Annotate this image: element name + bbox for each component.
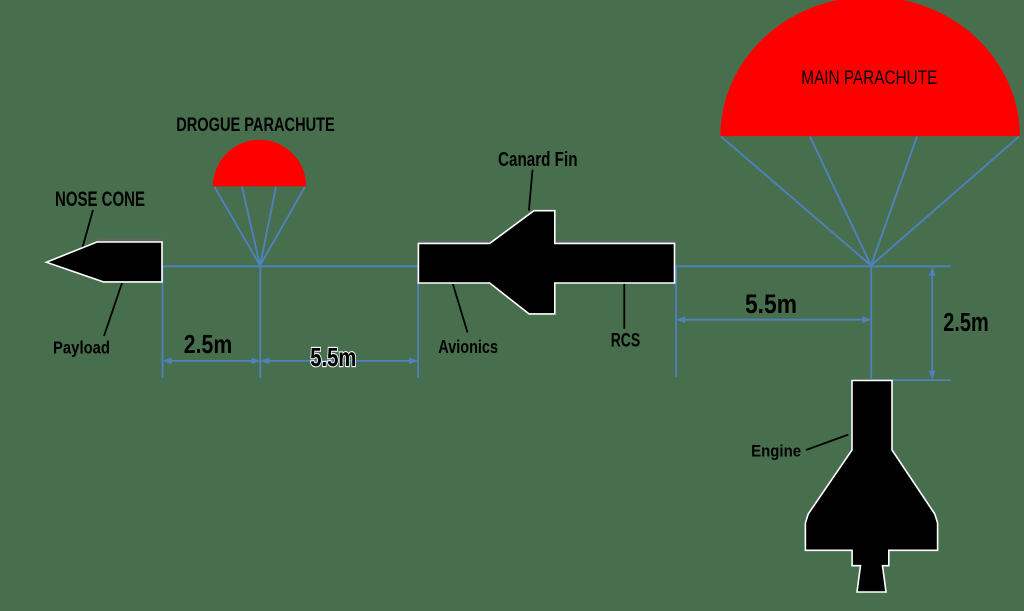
- svg-text:RCS: RCS: [611, 331, 641, 352]
- svg-text:DROGUE PARACHUTE: DROGUE PARACHUTE: [176, 115, 335, 136]
- svg-text:NOSE CONE: NOSE CONE: [55, 188, 145, 211]
- svg-text:5.5m: 5.5m: [745, 289, 797, 319]
- svg-text:Avionics: Avionics: [438, 337, 498, 357]
- svg-text:2.5m: 2.5m: [184, 329, 232, 359]
- svg-text:MAIN PARACHUTE: MAIN PARACHUTE: [801, 68, 937, 89]
- svg-text:Engine: Engine: [751, 441, 801, 460]
- svg-text:5.5m: 5.5m: [310, 342, 356, 372]
- svg-text:Payload: Payload: [53, 338, 110, 358]
- svg-text:2.5m: 2.5m: [943, 309, 988, 337]
- svg-text:Canard Fin: Canard Fin: [498, 149, 578, 171]
